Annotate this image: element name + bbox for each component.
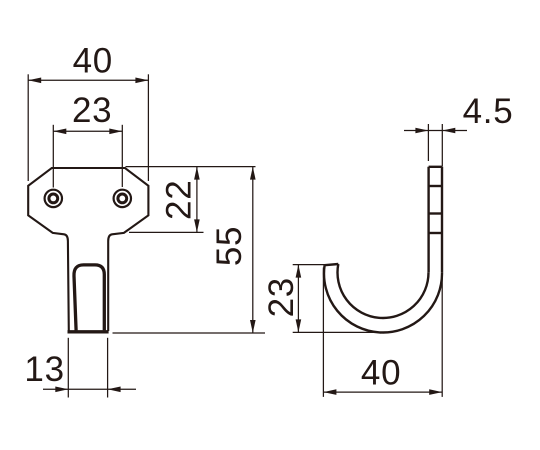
svg-text:22: 22	[159, 180, 198, 220]
svg-text:23: 23	[72, 91, 112, 130]
svg-text:40: 40	[361, 354, 401, 393]
svg-text:55: 55	[210, 226, 249, 266]
svg-text:40: 40	[73, 42, 113, 81]
svg-text:13: 13	[24, 350, 64, 389]
svg-text:4.5: 4.5	[463, 92, 514, 131]
svg-text:23: 23	[262, 277, 301, 317]
